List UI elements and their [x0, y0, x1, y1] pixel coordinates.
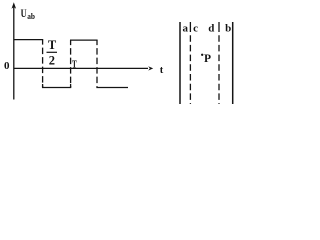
svg-text:t: t [160, 65, 164, 76]
dashed line c [189, 22, 191, 104]
y-axis [13, 7, 15, 100]
corner stub bottom of edge at T [70, 84, 72, 88]
svg-text:2: 2 [49, 53, 55, 67]
waveform pulse 2 top [70, 39, 98, 41]
wire: falling edge dashed at 3T/2 [96, 40, 98, 87]
svg-text:U: U [21, 8, 27, 20]
plate a [179, 22, 181, 104]
plate b [232, 22, 234, 104]
svg-text:d: d [208, 22, 214, 34]
waveform low segment 2 [96, 87, 128, 89]
svg-text:P: P [204, 53, 211, 65]
wire: falling edge dashed at T/2 [42, 40, 44, 88]
svg-text:0: 0 [4, 60, 10, 72]
point P dot [201, 54, 203, 56]
x-axis arrowhead [148, 66, 153, 70]
corner stub bottom-left of low segment 1 [42, 84, 44, 88]
fraction bar of T/2 [47, 51, 58, 53]
x-axis [14, 67, 148, 69]
svg-text:c: c [193, 22, 198, 34]
svg-text:T: T [72, 60, 77, 71]
waveform low segment 1 [42, 87, 71, 89]
svg-text:b: b [225, 22, 231, 34]
svg-text:a: a [183, 22, 189, 34]
wire: rising edge dashed at T [70, 40, 72, 87]
svg-text:T: T [48, 38, 57, 52]
dashed line d [218, 22, 220, 104]
y-axis arrowhead [12, 2, 17, 9]
svg-text:ab: ab [27, 11, 35, 21]
waveform pulse 1 top [14, 39, 43, 41]
